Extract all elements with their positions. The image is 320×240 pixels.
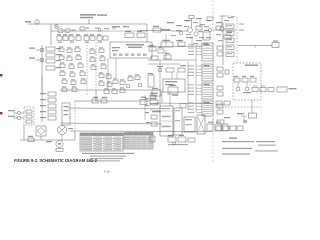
svg-text:9-19: 9-19 xyxy=(104,170,110,174)
svg-text:FIGURE 9-2. SCHEMATIC DIAGRAM: FIGURE 9-2. SCHEMATIC DIAGRAM 461-2 xyxy=(14,158,98,163)
